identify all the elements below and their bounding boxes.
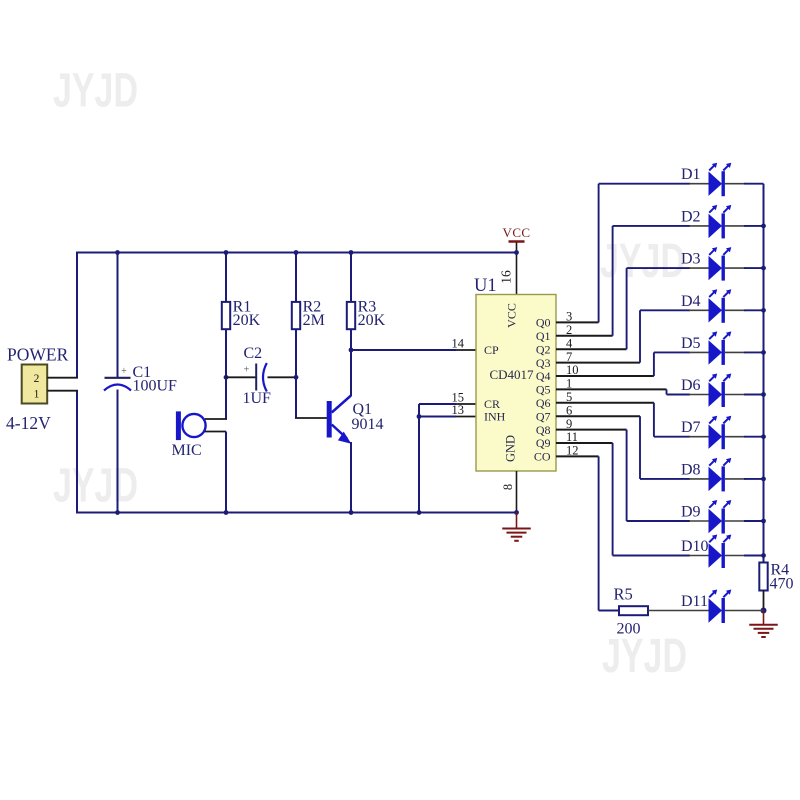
wire D1 anode row <box>599 183 690 185</box>
wire D8 cathode to bus <box>725 478 745 480</box>
wire D10 cathode to bus <box>725 555 745 557</box>
connector J1 POWER 2-pin header <box>22 365 48 404</box>
wire left vertical from power connector pin 1 down to bottom rail <box>76 391 78 514</box>
IC U1 CD4017 decade counter body <box>476 295 556 472</box>
LED D7 <box>709 425 723 449</box>
LED D10 <box>709 543 723 567</box>
resistor R1 <box>222 302 230 329</box>
svg-text:MIC: MIC <box>172 442 202 459</box>
LED D3 <box>709 256 723 280</box>
wire C1 branch lower <box>117 390 119 513</box>
wire pin 7 to D4 row <box>639 310 641 362</box>
svg-text:D4: D4 <box>681 293 701 310</box>
wire signal node to C2 <box>226 376 256 378</box>
wire pin 1 to D6 row <box>666 389 668 394</box>
wire R2 top <box>295 253 297 303</box>
wire R5 to D11 anode <box>648 610 709 612</box>
svg-text:1UF: 1UF <box>243 390 272 407</box>
svg-text:2: 2 <box>34 373 40 385</box>
wire D9 cathode to bus <box>725 520 745 522</box>
wire R3 bottom / Q1 collector node <box>350 329 352 394</box>
wire D7 anode row <box>654 436 690 438</box>
wire pin 4 to D3 row <box>626 268 628 349</box>
svg-text:10: 10 <box>566 363 579 377</box>
svg-text:1: 1 <box>34 389 40 401</box>
wire D9 anode row <box>627 520 690 522</box>
svg-text:+: + <box>244 365 250 376</box>
capacitor C2 1UF polarized <box>255 364 257 391</box>
wire IC pin 12 stub <box>556 455 599 457</box>
resistor R4 <box>759 563 767 591</box>
svg-text:D8: D8 <box>681 461 701 478</box>
wire IC pin 6 stub <box>556 415 640 417</box>
wire pin 10 to D5 row <box>653 352 655 376</box>
svg-text:14: 14 <box>452 337 465 351</box>
wire LED cathode bus <box>763 184 765 563</box>
wire pin 2 to D2 row <box>612 226 614 336</box>
wire mic top terminal <box>205 418 227 420</box>
wire D3 anode row <box>627 267 690 269</box>
svg-text:8: 8 <box>501 484 515 490</box>
wire C2 to R2 base node <box>268 376 297 378</box>
svg-text:D3: D3 <box>681 251 701 268</box>
resistor R2 <box>292 302 300 329</box>
LED D6 <box>709 382 723 406</box>
wire mic bottom terminal to ground rail <box>205 431 226 433</box>
wire CR/INH vertical to ground rail <box>418 404 420 513</box>
wire D1 cathode to bus <box>725 183 745 185</box>
LED D9 <box>709 509 723 533</box>
svg-text:100UF: 100UF <box>133 378 178 395</box>
wire CP node to IC pin 14 <box>351 349 456 351</box>
svg-text:U1: U1 <box>474 276 497 296</box>
svg-text:POWER: POWER <box>7 345 69 365</box>
svg-text:D10: D10 <box>681 538 709 555</box>
wire IC pin 10 stub <box>556 375 654 377</box>
wire D2 anode row <box>613 225 690 227</box>
svg-text:Q0: Q0 <box>536 316 551 330</box>
svg-text:12: 12 <box>566 444 579 458</box>
svg-text:4: 4 <box>566 336 573 350</box>
wire IC pin 2 stub <box>556 335 613 337</box>
capacitor C1 100UF polarized <box>105 377 131 379</box>
svg-text:20K: 20K <box>358 312 386 329</box>
wire D6 cathode to bus <box>725 394 745 396</box>
wire bottom ground rail <box>77 512 517 514</box>
wire R1 bottom to mic node <box>225 329 227 419</box>
svg-text:GND: GND <box>504 435 518 462</box>
wire pin 5 to D7 row <box>653 403 655 437</box>
wire IC pin 13 INH <box>456 416 476 418</box>
svg-text:R5: R5 <box>614 585 633 604</box>
wire D10 anode row <box>613 555 690 557</box>
wire IC pin 5 stub <box>556 402 654 404</box>
svg-text:D1: D1 <box>681 166 701 183</box>
wire D4 cathode to bus <box>725 309 745 311</box>
svg-text:Q3: Q3 <box>536 356 551 370</box>
svg-text:JYJD: JYJD <box>53 65 138 118</box>
resistor R3 <box>347 302 355 329</box>
svg-text:9: 9 <box>566 417 572 431</box>
wire IC pin 3 stub <box>556 321 599 323</box>
wire VCC to IC pin 16 <box>516 243 518 295</box>
microphone MIC <box>176 411 181 440</box>
wire IC pin 11 stub <box>556 442 613 444</box>
svg-text:Q2: Q2 <box>536 342 551 356</box>
wire D2 cathode to bus <box>725 225 745 227</box>
svg-text:CD4017: CD4017 <box>490 367 535 382</box>
svg-text:11: 11 <box>566 430 578 444</box>
ground symbol bottom right <box>763 611 765 625</box>
wire connector pin 1 stub <box>47 390 78 392</box>
svg-text:Q4: Q4 <box>536 369 551 383</box>
wire Q1 emitter to ground rail <box>350 442 352 513</box>
wire IC pin 4 stub <box>556 348 627 350</box>
wire D8 anode row <box>640 478 690 480</box>
LED D11 <box>709 598 723 622</box>
wire IC pin 9 stub <box>556 429 627 431</box>
svg-text:Q9: Q9 <box>536 436 551 450</box>
svg-text:CP: CP <box>484 343 499 357</box>
wire R2 bottom to Q1 base <box>295 329 297 418</box>
LED D4 <box>709 298 723 322</box>
wire Q1 collector to CP node <box>350 350 352 396</box>
svg-text:470: 470 <box>770 576 794 593</box>
wire R1 top <box>225 253 227 303</box>
svg-text:16: 16 <box>499 270 514 284</box>
LED D1 <box>709 172 723 196</box>
svg-text:1: 1 <box>566 377 572 391</box>
wire D6 anode row <box>667 394 691 396</box>
svg-text:C2: C2 <box>244 345 263 362</box>
svg-text:VCC: VCC <box>505 303 519 328</box>
svg-text:JYJD: JYJD <box>602 630 687 683</box>
transistor Q1 9014 NPN <box>327 401 332 438</box>
LED D8 <box>709 467 723 491</box>
resistor R5 <box>619 606 648 615</box>
wire pin 11 to D10 row <box>612 443 614 556</box>
wire R4 bottom to D11 node <box>763 591 765 611</box>
svg-text:CO: CO <box>534 450 551 464</box>
wire IC pin 1 stub <box>556 388 667 390</box>
svg-text:Q8: Q8 <box>536 423 551 437</box>
wire D5 cathode to bus <box>725 351 745 353</box>
svg-text:Q5: Q5 <box>536 383 551 397</box>
wire D3 cathode to bus <box>725 267 745 269</box>
svg-text:4-12V: 4-12V <box>6 413 51 433</box>
wire pin 6 to D8 row <box>639 416 641 479</box>
wire C1 branch upper <box>117 253 119 378</box>
svg-text:D11: D11 <box>681 593 708 610</box>
wire D7 cathode to bus <box>725 436 745 438</box>
wire IC pin 15 CR <box>456 403 476 405</box>
svg-text:D5: D5 <box>681 335 701 352</box>
wire D4 anode row <box>640 309 690 311</box>
wire left vertical from power connector pin 2 up to top rail <box>76 252 78 378</box>
svg-text:2M: 2M <box>303 312 325 329</box>
wire pin 3 to D1 row <box>598 184 600 323</box>
wire IC pin 8 to ground rail <box>516 471 518 513</box>
svg-text:+: + <box>121 366 127 377</box>
svg-text:3: 3 <box>566 310 572 324</box>
svg-text:Q6: Q6 <box>536 396 551 410</box>
svg-text:13: 13 <box>452 403 465 417</box>
wire D11 cathode to R4/ground node <box>725 610 764 612</box>
svg-text:2: 2 <box>566 323 572 337</box>
svg-text:JYJD: JYJD <box>53 460 138 513</box>
svg-text:Q1: Q1 <box>536 329 551 343</box>
svg-text:200: 200 <box>617 621 641 638</box>
svg-text:INH: INH <box>484 410 506 424</box>
svg-text:20K: 20K <box>233 312 261 329</box>
wire D5 anode row <box>654 351 690 353</box>
svg-text:7: 7 <box>566 350 572 364</box>
svg-text:Q7: Q7 <box>536 409 551 423</box>
wire top VCC rail <box>77 252 517 254</box>
wire IC pin 7 stub <box>556 362 640 364</box>
svg-text:D6: D6 <box>681 377 701 394</box>
svg-text:5: 5 <box>566 390 572 404</box>
svg-text:6: 6 <box>566 403 572 417</box>
svg-text:9014: 9014 <box>352 416 384 433</box>
wire pin 12 to R5 <box>598 456 600 610</box>
ground symbol under IC <box>516 513 518 529</box>
wire R3 top <box>350 253 352 303</box>
svg-text:D7: D7 <box>681 419 701 436</box>
svg-text:D2: D2 <box>681 208 701 225</box>
svg-text:D9: D9 <box>681 504 701 521</box>
svg-text:VCC: VCC <box>503 225 531 240</box>
LED D2 <box>709 214 723 238</box>
wire connector pin 2 stub <box>47 377 78 379</box>
LED D5 <box>709 340 723 364</box>
wire pin 9 to D9 row <box>626 430 628 521</box>
